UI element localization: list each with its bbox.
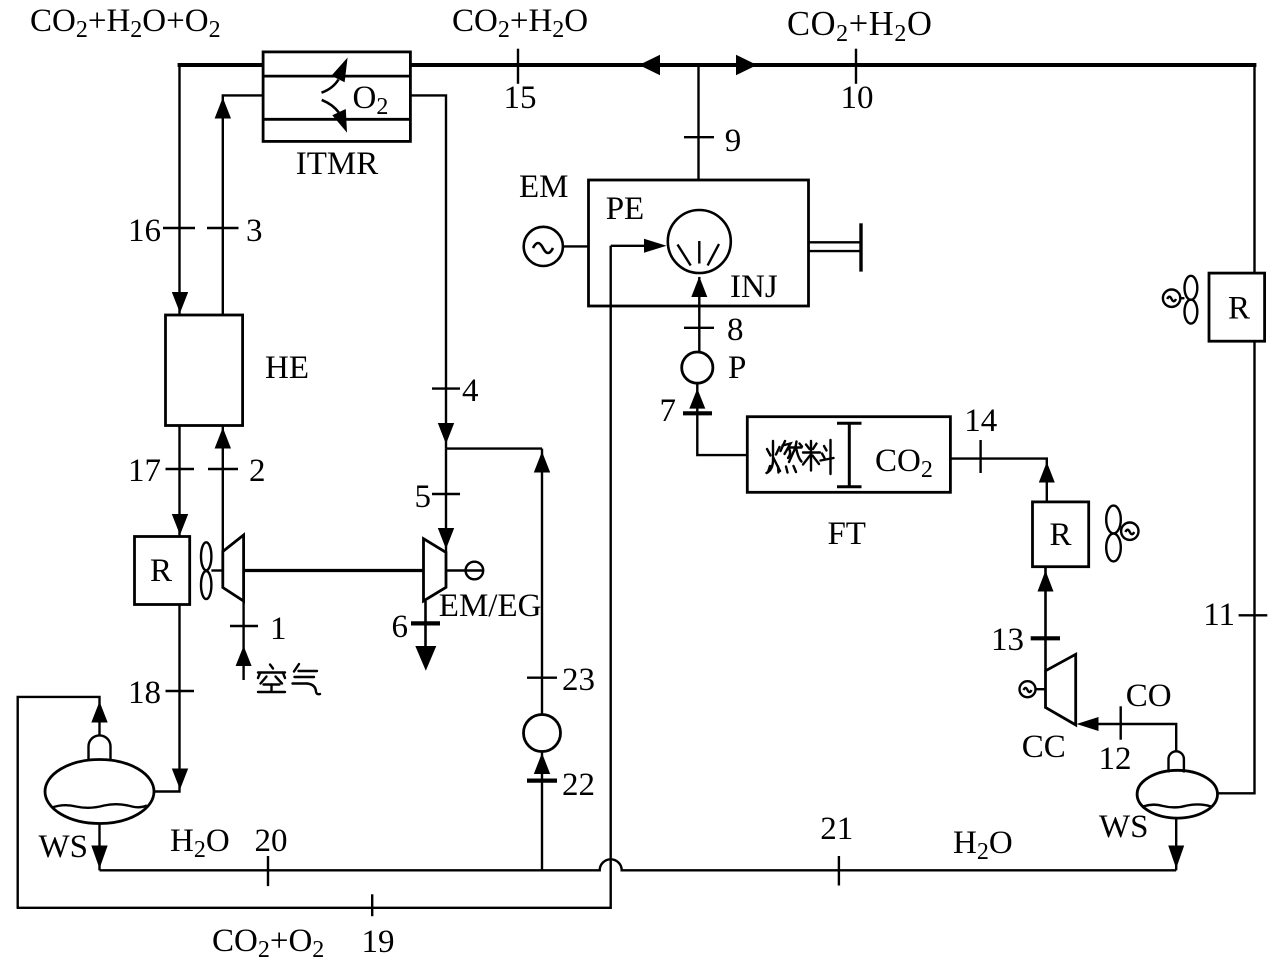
fuel pump P circle — [682, 352, 713, 383]
PE output shaft double line — [809, 242, 862, 251]
wire junction to recirc riser — [446, 447, 542, 449]
wire stream 1 air intake — [242, 601, 244, 680]
svg-text:9: 9 — [725, 123, 742, 159]
svg-text:CC: CC — [1022, 729, 1066, 765]
arrow up on stream 3 — [215, 98, 231, 119]
label air (Chinese) — [258, 664, 320, 694]
svg-text:19: 19 — [362, 924, 395, 960]
arrow down into HE top — [172, 292, 188, 313]
arrow up into pump — [534, 753, 550, 774]
svg-text:EM/EG: EM/EG — [439, 588, 542, 624]
tick stream 16 — [163, 227, 195, 229]
wire recirculation riser upper segment — [541, 449, 543, 715]
arrow down bold on stream 6 — [415, 646, 436, 671]
svg-text:8: 8 — [727, 312, 744, 348]
tick stream 1 — [230, 625, 258, 627]
tick stream 8 — [684, 327, 714, 329]
svg-text:4: 4 — [462, 373, 479, 409]
wire stream 14 from R2 up and left into FT — [950, 459, 1046, 502]
arrow up on stream 14 — [1039, 462, 1055, 483]
svg-text:5: 5 — [415, 479, 432, 515]
wire EM to PE — [563, 245, 589, 247]
arrow up into R2 bottom — [1038, 571, 1054, 592]
tick stream 17 — [166, 468, 195, 470]
arrow up on air intake — [236, 646, 252, 666]
wire recirculation riser lower segment — [541, 752, 543, 871]
compressor C trapezoid — [223, 535, 244, 601]
svg-text:7: 7 — [660, 393, 677, 429]
arrow up into junction — [534, 452, 550, 473]
tick stream 10 — [855, 49, 857, 84]
tick stream 18 — [166, 690, 195, 692]
cooler R2 box — [1033, 502, 1089, 567]
arrow left into CC — [1077, 717, 1099, 731]
tick stream 4 — [432, 387, 460, 389]
svg-text:22: 22 — [562, 767, 595, 803]
svg-text:HE: HE — [265, 350, 309, 386]
svg-text:23: 23 — [562, 662, 595, 698]
ITMR O2 permeate arrow up — [322, 58, 348, 93]
water separator WS2 vessel — [1137, 770, 1217, 818]
arrow down on WS2 drain — [1168, 846, 1184, 869]
wire stream 2 compressor up to HE — [222, 426, 224, 552]
wire stream 6 turbine exhaust down — [424, 601, 427, 650]
arrow down into R1 — [172, 514, 188, 535]
tick stream 21 — [838, 856, 840, 886]
tick stream 12 — [1119, 706, 1121, 739]
svg-text:6: 6 — [392, 609, 409, 645]
label fuel (Chinese) — [767, 440, 834, 474]
arrow down on WS1 drain — [91, 846, 107, 869]
PE shaft end bar — [859, 223, 862, 271]
svg-text:10: 10 — [841, 80, 874, 116]
wire WS1 gas outlet up and to left loop — [18, 697, 100, 908]
arrow on header pointing right toward stream 10 — [736, 55, 757, 75]
wire stream 17 HE down to cooler R1 — [178, 426, 180, 537]
svg-text:P: P — [728, 350, 746, 386]
svg-text:R: R — [150, 553, 172, 589]
wire CO2+O2 recycle line bottom — [17, 246, 611, 908]
fan beside R2 — [1106, 506, 1138, 562]
tick stream 22 (bold) — [527, 778, 557, 782]
tick stream 2 — [208, 468, 238, 470]
tick stream 23 — [527, 677, 557, 679]
arrow down on stream 18 — [172, 769, 188, 790]
turbine T trapezoid — [424, 539, 447, 601]
WS2 dome — [1169, 751, 1184, 772]
tick stream 9 — [684, 136, 714, 138]
tick stream 3 — [207, 227, 239, 229]
wire stream 8 fuel into INJ — [698, 277, 700, 352]
fan beside R3 — [1163, 276, 1197, 324]
recirculation pump circle — [524, 715, 561, 752]
svg-text:13: 13 — [991, 622, 1024, 658]
ITMR reactor body — [263, 52, 410, 141]
heat exchanger HE — [166, 315, 243, 426]
wire stream 12 WS2 to CC — [1097, 724, 1176, 751]
arrow up into INJ bottom — [691, 277, 707, 298]
svg-text:12: 12 — [1099, 741, 1132, 777]
shaft between compressor and turbine — [244, 569, 424, 572]
svg-text:WS: WS — [1099, 809, 1149, 845]
wire WS1 water drain down — [98, 824, 100, 871]
wire stream 5 down into turbine — [445, 449, 447, 553]
cooler R3 box — [1209, 273, 1265, 341]
wire WS2 drain down — [1175, 818, 1177, 870]
svg-text:20: 20 — [255, 823, 288, 859]
INJ spray lines — [678, 241, 720, 266]
wire right downcomer upper (header to R3) — [1253, 63, 1255, 273]
wire right downcomer lower (R3 to WS2) — [1218, 341, 1255, 793]
svg-text:CO2+H2O: CO2+H2O — [787, 5, 932, 47]
tick stream 19 — [371, 894, 373, 916]
svg-text:ITMR: ITMR — [296, 146, 379, 182]
tick stream 15 — [517, 49, 519, 84]
arrow up into HE bottom — [215, 428, 231, 449]
tick stream 6 (bold) — [411, 621, 440, 625]
svg-text:FT: FT — [827, 516, 866, 552]
WS2 water level — [1143, 804, 1211, 807]
fuel tank FT box — [747, 417, 950, 493]
tick stream 14 — [979, 440, 981, 473]
svg-text:15: 15 — [504, 80, 537, 116]
svg-text:CO2+H2O+O2: CO2+H2O+O2 — [30, 3, 221, 43]
arrow down on stream 4 — [438, 423, 454, 444]
FT piston divider — [837, 423, 862, 487]
arrow up into P — [689, 389, 705, 409]
wire stream 18 R1 down to water separator WS1 — [154, 605, 180, 792]
svg-text:18: 18 — [128, 675, 161, 711]
arrow right into INJ — [644, 239, 667, 253]
wire stream 7 fuel from FT to P — [697, 383, 747, 455]
svg-text:R: R — [1049, 517, 1071, 553]
wire stream 16 from header down into HE — [178, 63, 180, 315]
svg-text:3: 3 — [246, 213, 263, 249]
ITMR O2 permeate arrow down — [322, 100, 347, 133]
wire stream 13 from CC up to R2 — [1044, 567, 1047, 671]
WS1 water level — [52, 804, 147, 808]
tick stream 5 — [432, 493, 460, 495]
wire top exhaust header left segment — [178, 63, 264, 67]
wire recycle into injector (horizontal) — [611, 245, 645, 247]
svg-text:2: 2 — [249, 453, 266, 489]
tick stream 7 (bold) — [683, 411, 712, 415]
electric motor EM circle — [524, 227, 563, 266]
wire stream 3 from HE up into ITMR middle — [223, 95, 263, 315]
wire water header with hop over recycle line — [100, 859, 1177, 870]
arrow on header pointing left toward stream 15 — [639, 55, 660, 75]
wire stream 4 from ITMR down — [410, 95, 446, 448]
compressor CC trapezoid — [1046, 654, 1076, 725]
cooler R1 box — [135, 537, 190, 605]
svg-text:PE: PE — [606, 191, 645, 227]
svg-text:R: R — [1228, 291, 1250, 327]
svg-text:INJ: INJ — [730, 269, 778, 305]
svg-text:17: 17 — [128, 453, 161, 489]
tick stream 20 — [267, 856, 269, 886]
WS1 dome — [89, 735, 111, 761]
svg-text:EM: EM — [519, 169, 569, 205]
svg-text:11: 11 — [1203, 597, 1235, 633]
svg-text:CO2+H2O: CO2+H2O — [452, 3, 588, 43]
tick stream 13 (bold) — [1031, 636, 1060, 640]
svg-text:21: 21 — [820, 811, 853, 847]
CC motor circle — [1020, 681, 1046, 697]
svg-text:14: 14 — [964, 403, 997, 439]
svg-text:WS: WS — [39, 829, 89, 865]
svg-text:1: 1 — [270, 611, 287, 647]
svg-text:CO: CO — [1126, 678, 1172, 714]
arrow up on WS1 gas outlet — [91, 702, 107, 723]
wire stream 9 from header down to PE — [697, 65, 699, 180]
generator link EM/EG — [446, 562, 483, 580]
wire top exhaust header right segment — [410, 63, 1256, 67]
compressor fan blades — [201, 542, 223, 599]
injector INJ circle — [668, 210, 731, 273]
arrow down on stream 5 — [438, 528, 454, 549]
engine PE box — [589, 180, 809, 306]
svg-text:16: 16 — [128, 213, 161, 249]
water separator WS1 vessel — [45, 760, 154, 824]
tick stream 11 — [1239, 614, 1268, 616]
